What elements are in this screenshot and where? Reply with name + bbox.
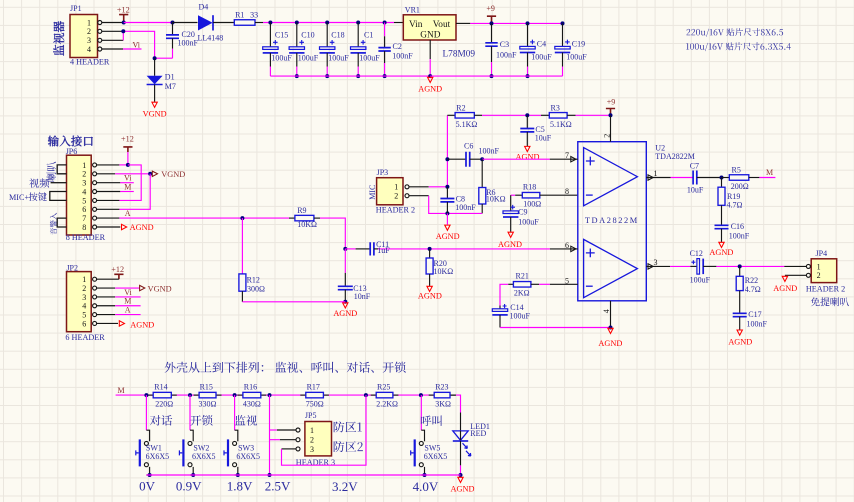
svg-text:M: M	[124, 297, 131, 306]
svg-text:2.2KΩ: 2.2KΩ	[376, 399, 398, 408]
wire LED feed	[456, 395, 461, 431]
svg-text:C6: C6	[464, 141, 473, 150]
svg-text:2: 2	[310, 436, 314, 445]
svg-text:VGND: VGND	[143, 109, 167, 118]
junction	[364, 393, 368, 397]
svg-text:Vi: Vi	[124, 288, 132, 297]
pin 4	[602, 301, 611, 328]
junction	[153, 56, 157, 60]
wire C14 to pin4	[500, 327, 611, 329]
svg-text:D1: D1	[165, 72, 175, 81]
svg-text:R21: R21	[516, 272, 529, 281]
svg-text:100nF: 100nF	[178, 39, 199, 48]
svg-text:6X6X5: 6X6X5	[192, 452, 216, 461]
junction	[561, 21, 565, 25]
bracket mic pins	[50, 192, 67, 201]
ground AGND (JP4)	[773, 276, 797, 293]
svg-text:100uF: 100uF	[510, 311, 531, 320]
capacitor C17	[733, 310, 768, 329]
svg-text:1: 1	[310, 426, 314, 435]
resistor R18	[511, 183, 578, 209]
bracket video pin	[51, 182, 67, 184]
svg-text:C12: C12	[690, 249, 703, 258]
power +12 (JP6)	[121, 134, 134, 165]
wire JP5 pin1	[270, 429, 296, 431]
svg-text:2: 2	[602, 134, 611, 138]
svg-text:3: 3	[82, 293, 86, 302]
wire JP6 pin6	[97, 208, 120, 210]
svg-text:5.1KΩ: 5.1KΩ	[550, 120, 572, 129]
power +12 (JP2)	[97, 265, 124, 279]
connector JP5	[296, 411, 335, 467]
svg-text:C17: C17	[748, 310, 761, 319]
svg-text:1: 1	[82, 275, 86, 284]
svg-text:U2: U2	[655, 143, 665, 152]
diode D4	[198, 3, 224, 43]
svg-text:AGND: AGND	[516, 152, 540, 161]
switch SW3	[224, 395, 260, 475]
svg-text:JP3: JP3	[377, 168, 389, 177]
junction	[126, 163, 130, 167]
wire to C20/D4	[124, 22, 173, 24]
ground rail right	[430, 75, 562, 77]
net label Vi (JP1 pin4)	[123, 41, 142, 50]
wire JP3 pin1	[409, 186, 447, 188]
label 音警入	[50, 213, 57, 235]
wire ladder	[171, 394, 434, 396]
resistor R3	[541, 104, 576, 129]
svg-text:+9: +9	[607, 98, 616, 107]
wire C12 to JP4	[716, 265, 784, 267]
svg-text:1uF: 1uF	[377, 246, 390, 255]
resistor R5	[722, 165, 760, 191]
svg-text:AGND: AGND	[436, 232, 460, 241]
svg-text:330Ω: 330Ω	[199, 399, 217, 408]
capacitor C20	[166, 23, 199, 59]
power +12 (JP1)	[117, 6, 130, 23]
ground VGND (JP6)	[152, 170, 185, 179]
svg-text:6X6X5: 6X6X5	[236, 452, 260, 461]
junction	[720, 176, 724, 180]
label 呼叫	[421, 416, 442, 427]
wire net A	[119, 217, 289, 219]
svg-text:D4: D4	[199, 3, 209, 12]
wire LED to rail	[460, 441, 462, 475]
svg-text:750Ω: 750Ω	[306, 399, 324, 408]
ground AGND (rail)	[451, 477, 475, 493]
svg-text:4.7Ω: 4.7Ω	[745, 285, 761, 294]
connector JP2	[65, 264, 105, 343]
svg-text:GND: GND	[420, 30, 440, 40]
ground VGND (JP2)	[97, 284, 172, 293]
resistor R14	[153, 383, 173, 409]
svg-text:TDA2822M: TDA2822M	[585, 216, 639, 225]
junction	[490, 74, 494, 78]
pin 1	[646, 169, 670, 180]
svg-text:Vout: Vout	[433, 20, 451, 30]
junction	[325, 21, 329, 25]
net label A (JP2)	[97, 306, 141, 315]
wire JP5 pin3	[282, 395, 367, 465]
svg-text:AGND: AGND	[418, 292, 442, 301]
svg-text:R2: R2	[456, 104, 465, 113]
svg-text:AGND: AGND	[451, 484, 475, 493]
junction	[445, 211, 449, 215]
label 免提喇叭	[811, 297, 849, 306]
capacitor C9	[503, 195, 539, 232]
svg-text:100uF: 100uF	[690, 276, 711, 285]
junction	[445, 185, 449, 189]
svg-text:C1: C1	[364, 31, 373, 40]
label 监视	[235, 415, 257, 426]
svg-text:R12: R12	[247, 276, 260, 285]
capacitor C1	[351, 23, 381, 77]
ground AGND (C13)	[333, 303, 357, 318]
svg-text:R22: R22	[745, 276, 758, 285]
bracket alarm pins	[57, 218, 66, 227]
wire R1 to VR1	[255, 22, 403, 24]
svg-text:C2: C2	[393, 42, 402, 51]
junction	[490, 21, 494, 25]
svg-text:8: 8	[82, 223, 86, 232]
svg-text:+9: +9	[486, 4, 495, 13]
svg-text:100uF: 100uF	[271, 53, 292, 62]
svg-text:1: 1	[654, 169, 658, 178]
label 防区1	[334, 421, 362, 432]
svg-text:7: 7	[565, 151, 569, 160]
wire pin1-pin5 loop	[119, 165, 141, 201]
svg-text:4.0V: 4.0V	[413, 479, 439, 494]
junction	[525, 113, 529, 117]
svg-text:Vi: Vi	[133, 41, 141, 50]
junction	[423, 473, 427, 477]
wire R9 to C11	[320, 218, 345, 249]
svg-text:3.2V: 3.2V	[332, 479, 358, 494]
svg-text:4.7Ω: 4.7Ω	[727, 200, 743, 209]
svg-text:100nF: 100nF	[455, 203, 476, 212]
capacitor C11	[345, 240, 550, 256]
svg-text:C8: C8	[456, 194, 465, 203]
svg-text:2: 2	[817, 271, 821, 280]
svg-text:1: 1	[394, 183, 398, 192]
resistor R20	[426, 249, 453, 286]
junction	[236, 473, 240, 477]
svg-text:R16: R16	[244, 383, 257, 392]
junction	[295, 21, 299, 25]
net label M (JP6)	[97, 182, 134, 191]
svg-text:4: 4	[87, 45, 91, 54]
svg-text:HEADER 2: HEADER 2	[806, 284, 845, 293]
svg-text:+12: +12	[111, 265, 124, 274]
svg-text:JP5: JP5	[305, 411, 317, 420]
capacitor C14	[492, 284, 530, 327]
svg-text:C19: C19	[572, 39, 585, 48]
svg-text:100nF: 100nF	[392, 52, 413, 61]
svg-text:2KΩ: 2KΩ	[514, 288, 530, 297]
svg-text:10KΩ: 10KΩ	[297, 220, 317, 229]
power +9 (VR1)	[486, 4, 496, 23]
wire D4-R1	[213, 22, 234, 24]
wire pin2-pin6	[119, 174, 150, 210]
svg-text:R1: R1	[235, 11, 244, 20]
LED LED1	[453, 422, 490, 456]
pin 2	[602, 115, 611, 141]
svg-text:4: 4	[82, 302, 86, 311]
svg-text:10uF: 10uF	[535, 134, 552, 143]
svg-text:AGND: AGND	[418, 84, 442, 93]
regulator VR1	[403, 6, 475, 60]
junction	[188, 393, 192, 397]
connector JP6	[66, 147, 106, 242]
resistor R15	[199, 383, 217, 409]
junction	[480, 157, 484, 161]
svg-text:C10: C10	[301, 31, 314, 40]
capacitor C3	[485, 23, 517, 76]
net label M (JP2)	[97, 297, 141, 306]
wire C6 to pin7	[482, 158, 550, 160]
svg-text:10uF: 10uF	[687, 185, 704, 194]
svg-text:R18: R18	[523, 183, 536, 192]
resistor R17	[306, 383, 324, 409]
label 输入接口	[48, 136, 93, 147]
wire pin1 out	[671, 177, 693, 179]
svg-text:6X6X5: 6X6X5	[146, 452, 170, 461]
junction	[122, 21, 126, 25]
net label A (JP6 pin7)	[97, 209, 131, 218]
ground AGND (JP2)	[97, 320, 155, 329]
svg-text:3: 3	[87, 36, 91, 45]
svg-text:RED: RED	[470, 429, 486, 438]
resistor R16	[243, 383, 261, 409]
note enclosure order	[165, 362, 406, 373]
pin 6	[550, 241, 578, 252]
resistor R25	[376, 383, 398, 409]
svg-text:HEADER 2: HEADER 2	[376, 206, 415, 215]
resistor R9	[289, 206, 320, 229]
ground AGND (C8)	[436, 213, 460, 241]
resistor R19	[718, 178, 743, 225]
junction	[240, 216, 244, 220]
ground AGND (C5)	[516, 146, 540, 161]
svg-text:C7: C7	[690, 162, 699, 171]
svg-text:220Ω: 220Ω	[155, 399, 173, 408]
svg-text:AGND: AGND	[728, 338, 752, 347]
junction	[428, 74, 432, 78]
wire JP3 pin2	[409, 196, 482, 214]
capacitor C4	[520, 23, 553, 76]
svg-text:4: 4	[602, 309, 611, 313]
ground AGND (C16)	[709, 242, 733, 256]
junction	[356, 21, 360, 25]
wire R12 ground rail	[242, 301, 345, 303]
junction	[526, 21, 530, 25]
capacitor C15	[263, 23, 293, 77]
svg-text:R3: R3	[551, 104, 560, 113]
ground AGND (C9)	[498, 232, 522, 249]
svg-text:R17: R17	[307, 383, 320, 392]
op-amp U2	[578, 142, 695, 301]
junction	[343, 300, 347, 304]
connector JP3	[376, 168, 415, 215]
wire JP5 pin2	[270, 439, 296, 441]
svg-text:R23: R23	[435, 383, 448, 392]
svg-text:33: 33	[250, 11, 258, 20]
wire VR1 GND	[429, 40, 431, 76]
ground AGND (JP6 pin8)	[97, 223, 154, 232]
svg-text:100uF: 100uF	[518, 217, 539, 226]
wire R3 to +9	[576, 114, 611, 116]
ground rail	[270, 75, 430, 77]
svg-text:5: 5	[82, 311, 86, 320]
resistor R6	[479, 159, 506, 213]
svg-text:5: 5	[82, 196, 86, 205]
svg-text:AGND: AGND	[709, 248, 733, 257]
svg-text:2.5V: 2.5V	[265, 478, 291, 493]
label 开锁	[190, 415, 212, 426]
svg-text:2: 2	[82, 284, 86, 293]
svg-text:C9: C9	[518, 208, 527, 217]
svg-text:AGND: AGND	[130, 223, 154, 232]
wire JP1 pins	[102, 23, 124, 50]
wire 2.5V tap	[269, 395, 271, 475]
svg-text:1.8V: 1.8V	[227, 478, 253, 493]
switch SW5	[411, 395, 448, 475]
svg-text:VGND: VGND	[161, 170, 185, 179]
capacitor C8	[440, 187, 476, 214]
svg-text:6X6X5: 6X6X5	[424, 452, 448, 461]
svg-text:2: 2	[87, 27, 91, 36]
svg-text:300Ω: 300Ω	[247, 285, 265, 294]
label 视频	[29, 178, 49, 188]
svg-text:100nF: 100nF	[747, 319, 768, 328]
svg-text:430Ω: 430Ω	[243, 399, 261, 408]
junction	[383, 21, 387, 25]
capacitor C7	[687, 162, 722, 195]
svg-text:A: A	[125, 209, 131, 218]
svg-text:0.9V: 0.9V	[176, 478, 202, 493]
svg-text:6 HEADER: 6 HEADER	[65, 333, 105, 342]
junction	[356, 74, 360, 78]
resistor R21	[508, 272, 550, 298]
svg-text:4: 4	[82, 187, 86, 196]
resistor R2	[447, 104, 482, 129]
svg-text:L78M09: L78M09	[443, 50, 476, 60]
label 防区2	[334, 441, 363, 452]
junction	[325, 74, 329, 78]
svg-text:10KΩ: 10KΩ	[434, 267, 454, 276]
junction	[295, 74, 299, 78]
junction	[191, 473, 195, 477]
svg-text:2: 2	[82, 170, 86, 179]
svg-text:C4: C4	[537, 39, 546, 48]
diode D1	[147, 58, 176, 102]
switch SW1	[136, 395, 169, 475]
svg-text:Vin: Vin	[409, 20, 423, 30]
svg-text:100uF: 100uF	[566, 53, 587, 62]
svg-text:C3: C3	[500, 40, 509, 49]
capacitor C5	[520, 115, 552, 146]
junction	[343, 247, 347, 251]
svg-text:C15: C15	[275, 31, 288, 40]
svg-text:JP4: JP4	[816, 249, 828, 258]
junction	[148, 172, 152, 176]
wire JP6 pin2	[97, 173, 151, 175]
svg-text:R9: R9	[297, 206, 306, 215]
svg-text:C18: C18	[331, 31, 344, 40]
junction	[268, 473, 272, 477]
svg-text:A: A	[125, 306, 131, 315]
capacitor C6	[447, 141, 499, 166]
svg-text:100uF: 100uF	[531, 53, 552, 62]
svg-text:1: 1	[82, 161, 86, 170]
svg-text:8 HEADER: 8 HEADER	[66, 233, 106, 242]
wire R2 node vertical	[446, 115, 448, 187]
junction	[459, 473, 463, 477]
svg-text:100nF: 100nF	[729, 232, 750, 241]
wire pin3 out	[670, 265, 690, 267]
svg-text:10nF: 10nF	[354, 292, 371, 301]
svg-text:TDA2822M: TDA2822M	[655, 152, 695, 161]
svg-text:LL4148: LL4148	[198, 33, 224, 42]
junction	[609, 326, 613, 330]
svg-text:6: 6	[82, 319, 86, 328]
svg-text:VGND: VGND	[148, 284, 172, 293]
junction	[383, 74, 387, 78]
svg-text:M: M	[124, 182, 131, 191]
svg-text:M: M	[766, 168, 773, 177]
junction	[121, 29, 125, 33]
pin 7	[550, 151, 578, 162]
net label M (ladder)	[116, 386, 154, 395]
ground VGND	[143, 102, 167, 118]
svg-text:4 HEADER: 4 HEADER	[70, 58, 110, 67]
svg-text:MIC+: MIC+	[9, 193, 29, 202]
wire JP1 pin2 net	[123, 31, 172, 58]
svg-text:5: 5	[565, 276, 569, 285]
svg-text:C16: C16	[731, 222, 744, 231]
ground AGND (VR1)	[418, 77, 442, 93]
svg-text:1: 1	[87, 18, 91, 27]
connector JP4	[806, 249, 845, 293]
bracket speaker pins	[57, 165, 66, 174]
svg-text:100uF: 100uF	[359, 53, 380, 62]
junction	[148, 473, 152, 477]
wire into D4	[173, 22, 198, 24]
label 对话	[150, 415, 172, 426]
svg-text:R15: R15	[200, 383, 213, 392]
ground AGND (R20)	[418, 286, 442, 300]
svg-text:+12: +12	[117, 6, 130, 15]
svg-text:AGND: AGND	[333, 309, 357, 318]
wire JP4 pin2	[785, 274, 807, 276]
capacitor C10	[289, 23, 319, 77]
svg-text:+12: +12	[121, 134, 134, 143]
svg-text:MIC: MIC	[368, 185, 377, 200]
pin 5	[550, 276, 578, 285]
capacitor C12	[690, 249, 717, 285]
resistor R12	[239, 218, 265, 302]
net label M (output)	[759, 168, 775, 177]
svg-text:C5: C5	[535, 125, 544, 134]
wire R2-R3	[482, 114, 541, 116]
connector JP1	[70, 4, 110, 66]
svg-text:1: 1	[817, 262, 821, 271]
svg-text:M7: M7	[165, 82, 176, 91]
capacitor C18	[320, 23, 350, 77]
ground AGND (C17)	[728, 330, 752, 347]
svg-text:AGND: AGND	[498, 240, 522, 249]
junction	[609, 113, 613, 117]
